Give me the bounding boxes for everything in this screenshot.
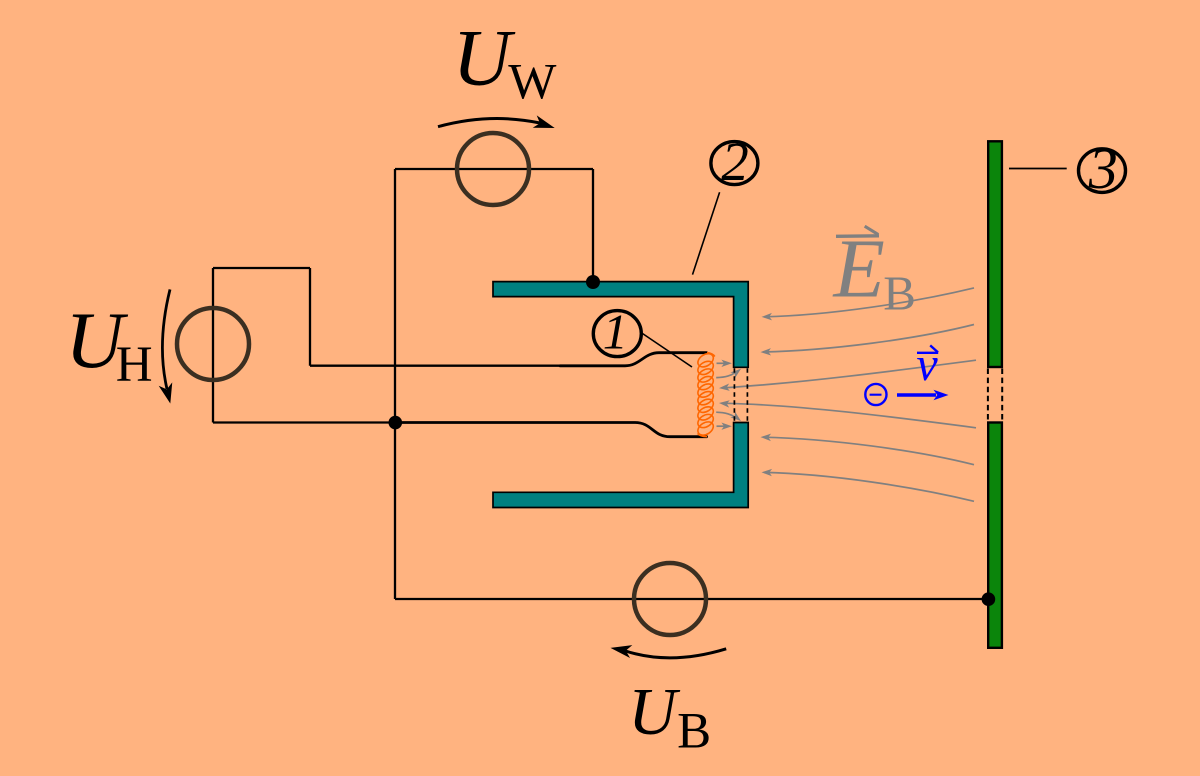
svg-text:B: B (677, 704, 711, 760)
svg-text:1: 1 (603, 304, 628, 360)
svg-text:3: 3 (1088, 136, 1118, 201)
svg-text:W: W (508, 55, 557, 111)
svg-text:v: v (916, 338, 938, 391)
svg-text:U: U (628, 675, 681, 749)
svg-text:B: B (883, 266, 916, 321)
svg-text:H: H (116, 337, 153, 393)
svg-text:2: 2 (721, 131, 749, 192)
svg-text:U: U (453, 13, 516, 103)
